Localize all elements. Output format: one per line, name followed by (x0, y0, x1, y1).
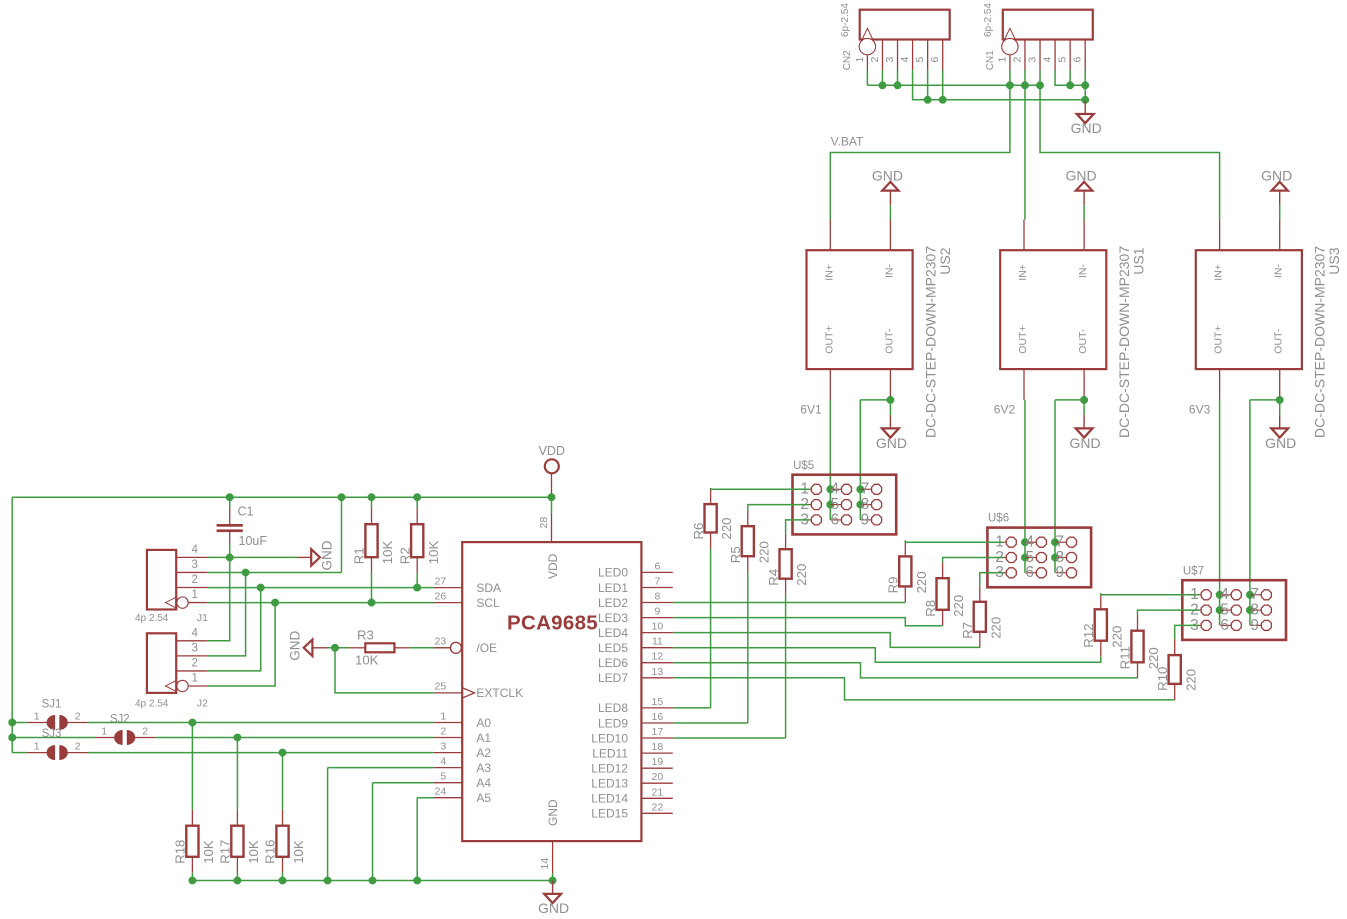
wire SJ2 pins (96, 737, 156, 739)
svg-text:R2: R2 (397, 547, 412, 564)
svg-text:220: 220 (914, 571, 929, 593)
svg-text:3: 3 (884, 57, 896, 63)
svg-text:R17: R17 (218, 840, 233, 864)
svg-text:R18: R18 (173, 840, 188, 864)
ground GND below CN1 (1071, 101, 1102, 136)
svg-text:17: 17 (652, 726, 664, 738)
label net 6V2 (994, 403, 1016, 417)
svg-text:GND: GND (320, 540, 335, 570)
wire net R4 to U$5 pin3 (786, 520, 809, 533)
svg-text:R8: R8 (923, 600, 938, 617)
svg-text:SCL: SCL (476, 596, 500, 610)
svg-text:6: 6 (929, 57, 941, 63)
svg-text:4: 4 (1042, 57, 1054, 63)
wire net A3 (328, 768, 434, 881)
wire net R11 to U$7 pin2 (1138, 610, 1199, 615)
svg-text:A1: A1 (476, 731, 491, 745)
svg-text:GND: GND (1066, 167, 1097, 183)
wire net A4 (373, 783, 434, 881)
svg-text:IN-: IN- (1273, 264, 1285, 279)
wire net LED10 to R4 (673, 595, 786, 738)
svg-text:6V1: 6V1 (800, 403, 822, 417)
svg-text:OUT+: OUT+ (823, 325, 835, 353)
svg-text:LED9: LED9 (598, 716, 628, 730)
wire net GND C1 (208, 543, 297, 641)
svg-text:1: 1 (440, 710, 446, 722)
svg-text:6p-2.54: 6p-2.54 (840, 3, 851, 37)
svg-text:2: 2 (192, 657, 198, 669)
wire net LED4 to R7 (673, 633, 980, 648)
svg-text:6: 6 (654, 560, 660, 572)
dc-dc module US1 (1000, 220, 1146, 439)
wire SJ3 pins (27, 752, 88, 754)
svg-text:A5: A5 (476, 791, 491, 805)
svg-text:J1: J1 (197, 612, 208, 624)
svg-text:4p 2.54: 4p 2.54 (135, 613, 169, 624)
label net 6V3 (1189, 403, 1211, 417)
svg-text:3: 3 (192, 559, 198, 571)
capacitor C1 (217, 505, 268, 549)
wire net OE EXTCLK (327, 644, 450, 693)
svg-text:8: 8 (654, 591, 660, 603)
svg-text:GND: GND (1070, 435, 1101, 451)
resistor R1 (352, 508, 395, 573)
svg-text:GND: GND (1261, 167, 1292, 183)
svg-text:OUT+: OUT+ (1213, 325, 1225, 353)
op-amp U1 PCA9685 IC (434, 514, 673, 881)
svg-text:4: 4 (192, 627, 199, 639)
svg-text:6: 6 (1220, 617, 1229, 634)
svg-text:21: 21 (652, 786, 664, 798)
svg-text:10: 10 (652, 621, 664, 633)
svg-text:3: 3 (192, 642, 198, 654)
power VDD symbol (539, 444, 565, 494)
svg-text:7: 7 (654, 576, 660, 588)
svg-text:IN+: IN+ (1017, 264, 1029, 281)
svg-text:LED4: LED4 (598, 626, 628, 640)
svg-text:LED7: LED7 (598, 671, 628, 685)
wire net LED7 to R10 (673, 678, 1175, 700)
wire net LED3 to R8 (673, 618, 943, 626)
svg-text:U$6: U$6 (988, 513, 1009, 525)
svg-text:SJ1: SJ1 (42, 699, 62, 711)
svg-text:GND: GND (538, 900, 569, 916)
svg-text:16: 16 (652, 711, 664, 723)
wire net GND US1 out (1051, 396, 1088, 573)
ground GND below US3 (1265, 415, 1296, 451)
resistor R2 (397, 508, 440, 573)
svg-text:LED14: LED14 (591, 792, 628, 806)
wire net LED5 to R12 (673, 648, 1101, 663)
svg-text:27: 27 (435, 575, 447, 587)
wire net R6 to U$5 pin1 (711, 488, 809, 489)
svg-text:24: 24 (435, 786, 447, 798)
svg-text:LED8: LED8 (598, 701, 628, 715)
svg-text:LED13: LED13 (591, 777, 628, 791)
ground GND below PCA9685 (538, 881, 569, 917)
svg-text:3: 3 (440, 740, 446, 752)
svg-text:R10: R10 (1155, 667, 1170, 691)
svg-text:GND: GND (876, 435, 907, 451)
svg-text:LED10: LED10 (591, 731, 628, 745)
wire net 6V1 (827, 400, 835, 520)
wire SJ1 pins (27, 722, 88, 724)
svg-text:20: 20 (652, 771, 664, 783)
resistor R7 (960, 586, 1003, 648)
svg-text:2: 2 (1011, 57, 1023, 63)
svg-text:R5: R5 (728, 546, 743, 563)
resistor R17 (218, 810, 261, 873)
svg-text:GND: GND (872, 167, 903, 183)
svg-text:2: 2 (75, 710, 81, 722)
svg-text:EXTCLK: EXTCLK (476, 686, 523, 700)
wire net R8 to U$6 pin2 (943, 558, 1004, 563)
wire net A0 (88, 719, 434, 810)
svg-text:A3: A3 (476, 761, 491, 775)
ground GND above US3 (1261, 167, 1292, 219)
svg-text:R1: R1 (352, 547, 367, 564)
wire net LED2 to R9 (673, 602, 906, 604)
svg-text:5: 5 (1057, 57, 1069, 63)
resistor R5 (728, 510, 771, 572)
dc-dc module US3 (1196, 220, 1342, 439)
label net 6V1 (800, 403, 822, 417)
svg-text:220: 220 (719, 517, 734, 539)
svg-text:14: 14 (539, 858, 551, 870)
connector CN1 (983, 3, 1093, 71)
svg-text:/OE: /OE (476, 641, 497, 655)
connector CN2 (840, 3, 950, 71)
wire net R10 to U$7 pin3 (1175, 625, 1199, 639)
svg-text:22: 22 (652, 801, 664, 813)
svg-text:10K: 10K (355, 653, 379, 668)
svg-text:10uF: 10uF (239, 534, 268, 548)
wire net R9 to U$6 pin1 (905, 540, 1004, 542)
svg-text:4: 4 (899, 57, 911, 63)
svg-text:220: 220 (1183, 669, 1198, 691)
ground GND above US1 (1066, 167, 1097, 219)
svg-text:LED5: LED5 (598, 641, 628, 655)
resistor R4 (766, 533, 809, 595)
svg-text:SJ2: SJ2 (110, 714, 130, 726)
svg-text:J2: J2 (197, 697, 208, 709)
wire net VDD (8, 493, 555, 752)
ground GND below US2 (876, 415, 907, 451)
svg-text:5: 5 (440, 771, 446, 783)
svg-text:1: 1 (996, 57, 1008, 63)
svg-text:R4: R4 (766, 569, 781, 586)
svg-text:9: 9 (1250, 617, 1259, 634)
wire net R12 to U$7 pin1 (1101, 593, 1199, 595)
connector block U$7 (1182, 565, 1286, 640)
svg-text:C1: C1 (238, 505, 254, 519)
resistor R16 (263, 810, 306, 873)
svg-text:R11: R11 (1118, 646, 1133, 669)
wire net GND US2 out (857, 396, 895, 520)
svg-text:4p 2.54: 4p 2.54 (135, 698, 169, 709)
svg-text:LED2: LED2 (598, 596, 628, 610)
solder jumper SJ3 (34, 728, 81, 760)
svg-text:5: 5 (914, 57, 926, 63)
svg-text:IN-: IN- (883, 264, 895, 279)
wire net LED6 to R11 (673, 663, 1138, 678)
svg-text:LED12: LED12 (591, 762, 628, 776)
svg-text:220: 220 (1109, 626, 1124, 648)
svg-text:12: 12 (652, 651, 664, 663)
svg-text:US1: US1 (1131, 247, 1147, 274)
svg-text:2: 2 (192, 574, 198, 586)
svg-text:LED0: LED0 (598, 566, 628, 580)
svg-text:R7: R7 (960, 622, 975, 639)
ground GND above US2 (872, 167, 903, 219)
svg-text:6V2: 6V2 (994, 403, 1016, 417)
svg-text:6V3: 6V3 (1189, 403, 1211, 417)
svg-text:2: 2 (440, 725, 446, 737)
svg-text:2: 2 (869, 57, 881, 63)
svg-text:US2: US2 (937, 247, 953, 274)
svg-text:CN1: CN1 (985, 50, 996, 70)
svg-text:6: 6 (1025, 564, 1034, 581)
wire net R5 to U$5 pin2 (748, 505, 809, 511)
connector block U$6 (987, 513, 1091, 588)
svg-text:10K: 10K (380, 541, 395, 565)
svg-text:1: 1 (34, 710, 40, 722)
svg-text:10K: 10K (426, 541, 441, 565)
svg-text:1: 1 (192, 672, 198, 684)
svg-text:GND: GND (1071, 120, 1102, 136)
dc-dc module US2 (807, 220, 953, 439)
svg-text:LED3: LED3 (598, 611, 628, 625)
svg-text:19: 19 (652, 756, 664, 768)
svg-text:R12: R12 (1081, 623, 1096, 647)
svg-text:4: 4 (440, 755, 446, 767)
svg-text:SDA: SDA (476, 581, 501, 595)
svg-text:220: 220 (1146, 647, 1161, 669)
svg-text:LED1: LED1 (598, 581, 628, 595)
wire net 6V2 (1021, 400, 1029, 573)
svg-text:IN+: IN+ (823, 264, 835, 281)
svg-text:28: 28 (538, 517, 550, 529)
svg-text:LED15: LED15 (591, 807, 628, 821)
solder jumper SJ2 (101, 714, 148, 746)
svg-text:VDD: VDD (546, 553, 560, 579)
svg-text:2: 2 (142, 725, 148, 737)
svg-text:220: 220 (951, 595, 966, 617)
solder jumper SJ1 (34, 699, 81, 731)
svg-text:3: 3 (1027, 57, 1039, 63)
svg-text:10K: 10K (291, 840, 306, 864)
svg-text:6: 6 (830, 511, 839, 528)
resistor R10 (1155, 639, 1198, 700)
svg-text:OUT+: OUT+ (1017, 325, 1029, 353)
resistor R3 (350, 628, 411, 668)
svg-text:6: 6 (1072, 57, 1084, 63)
svg-text:10K: 10K (201, 840, 216, 864)
wire net LED9 to R5 (673, 572, 748, 723)
ground GND left of R3 (288, 631, 327, 661)
wire net A2 (88, 749, 434, 810)
resistor R11 (1118, 615, 1161, 679)
svg-text:1: 1 (192, 589, 198, 601)
svg-text:15: 15 (652, 696, 664, 708)
svg-text:6p-2.54: 6p-2.54 (983, 3, 994, 37)
svg-text:IN+: IN+ (1213, 264, 1225, 281)
svg-text:PCA9685: PCA9685 (507, 612, 598, 635)
svg-text:23: 23 (435, 636, 447, 648)
svg-text:OUT-: OUT- (883, 328, 895, 354)
svg-text:V.BAT: V.BAT (831, 135, 864, 149)
svg-text:4: 4 (192, 544, 199, 556)
connector J1 (135, 544, 208, 624)
svg-text:220: 220 (988, 617, 1003, 639)
svg-text:10K: 10K (246, 840, 261, 864)
svg-text:GND: GND (546, 799, 560, 826)
svg-text:R16: R16 (263, 840, 278, 864)
svg-text:2: 2 (75, 740, 81, 752)
svg-text:U$5: U$5 (793, 460, 814, 472)
svg-text:9: 9 (654, 606, 660, 618)
resistor R8 (923, 562, 966, 626)
wire net 6V3 (1216, 400, 1224, 626)
svg-text:U$7: U$7 (1183, 565, 1204, 577)
svg-text:GND: GND (1265, 435, 1296, 451)
svg-text:220: 220 (794, 564, 809, 586)
svg-text:1: 1 (854, 57, 866, 63)
connector J2 (135, 627, 208, 709)
svg-text:25: 25 (435, 681, 447, 693)
label net V.BAT (831, 135, 864, 149)
svg-text:OUT-: OUT- (1273, 328, 1285, 354)
svg-text:9: 9 (1055, 564, 1064, 581)
svg-text:13: 13 (652, 666, 664, 678)
wire net SDA (208, 573, 434, 671)
svg-text:US3: US3 (1326, 247, 1342, 274)
wire net SCL (208, 573, 434, 686)
svg-text:1: 1 (34, 740, 40, 752)
svg-text:VDD: VDD (539, 444, 565, 458)
resistor R12 (1081, 593, 1124, 656)
ground GND below US1 (1070, 415, 1101, 451)
resistor R6 (691, 488, 734, 548)
svg-text:26: 26 (435, 590, 447, 602)
svg-text:R9: R9 (886, 577, 901, 594)
resistor R18 (173, 810, 216, 873)
svg-text:A0: A0 (476, 716, 491, 730)
ground GND right of C1 (297, 540, 335, 570)
wire net LED8 to R6 (673, 549, 711, 708)
svg-text:IN-: IN- (1077, 264, 1089, 279)
svg-text:OUT-: OUT- (1077, 328, 1089, 354)
svg-text:R6: R6 (691, 523, 706, 540)
svg-text:LED6: LED6 (598, 656, 628, 670)
wire net GND bottom rail (189, 873, 557, 884)
svg-text:GND: GND (288, 631, 303, 661)
svg-text:9: 9 (861, 511, 870, 528)
wire net A1 (155, 734, 433, 810)
wire net GND top bus (913, 70, 1089, 104)
wire net R7 to U$6 pin3 (980, 573, 1004, 586)
wire net A5 (417, 798, 433, 881)
connector block U$5 (793, 460, 897, 535)
svg-text:A4: A4 (476, 776, 491, 790)
svg-text:CN2: CN2 (842, 50, 853, 70)
svg-text:LED11: LED11 (592, 746, 628, 760)
svg-text:220: 220 (756, 541, 771, 563)
wire net V.BAT (830, 70, 1219, 220)
wire net GND US3 out (1246, 396, 1283, 625)
resistor R9 (886, 540, 929, 602)
svg-text:R3: R3 (357, 628, 374, 643)
svg-text:18: 18 (652, 741, 664, 753)
svg-text:1: 1 (101, 725, 107, 737)
svg-text:SJ3: SJ3 (42, 728, 62, 740)
svg-text:11: 11 (652, 636, 663, 648)
svg-text:A2: A2 (476, 746, 491, 760)
